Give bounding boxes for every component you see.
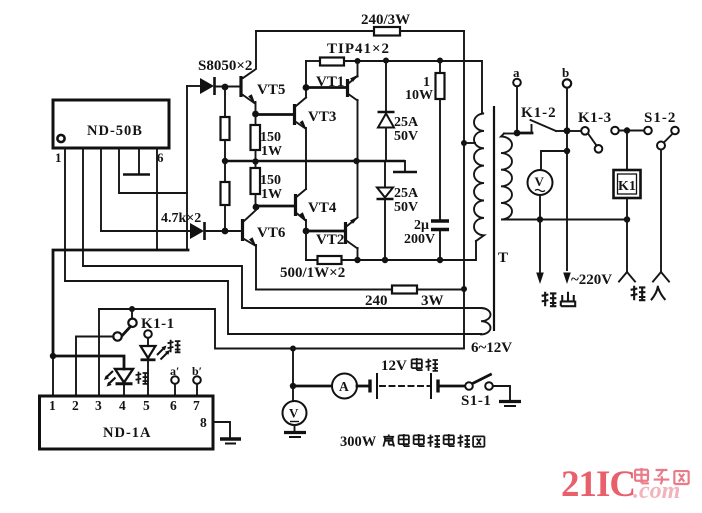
svg-text:VT1: VT1 — [316, 74, 344, 90]
wire left drop from D1 — [186, 86, 188, 250]
svg-text:ND-1A: ND-1A — [103, 425, 152, 441]
wire 150-1 to rail — [255, 150, 257, 168]
LED green — [147, 338, 149, 346]
LED red rays — [106, 371, 116, 385]
wire VT4/VT2 node down — [305, 231, 307, 260]
IC ND-50B box — [53, 100, 169, 148]
svg-text:5: 5 — [143, 398, 150, 413]
wire pin1 net to ND-1A pin1 — [52, 356, 54, 396]
resistor 150/1W no.1 — [251, 125, 261, 150]
resistor 240/3W — [374, 27, 400, 36]
label input (shu ru) — [631, 286, 646, 300]
wire diode D1 anode — [187, 85, 200, 87]
node VT2 base junction — [303, 228, 310, 235]
node pin1/pin4 junction — [50, 353, 56, 359]
wire to ammeter — [293, 385, 332, 388]
label output (shu chu) — [542, 292, 557, 306]
transistor VT2 — [344, 222, 347, 244]
secondary 220V winding — [501, 134, 512, 220]
svg-text:2μ: 2μ — [414, 218, 429, 233]
resistor 1/10W — [436, 73, 445, 99]
svg-text:2: 2 — [72, 398, 79, 413]
diode D1 — [200, 78, 214, 94]
resistor 4.7k no.2 — [221, 182, 230, 205]
wire D1 cathode to VT5 base — [215, 86, 240, 88]
transistor VT6 — [244, 207, 256, 221]
svg-text:1: 1 — [49, 398, 56, 413]
svg-text:a′: a′ — [170, 364, 179, 378]
node resistor 1/10W junction — [437, 58, 443, 64]
wire ND-50B pin1 down — [64, 148, 66, 281]
svg-text:VT6: VT6 — [257, 225, 286, 241]
wire bottom rail — [306, 241, 476, 260]
svg-text:4: 4 — [119, 398, 126, 413]
svg-text:150: 150 — [260, 130, 281, 145]
svg-text:.com: .com — [633, 478, 680, 504]
svg-text:b′: b′ — [192, 364, 202, 378]
node VT1 base junction — [303, 84, 310, 91]
transistor VT3 — [293, 104, 296, 125]
node D2/4.7k junction — [222, 228, 229, 235]
wire top rail left segment — [256, 30, 374, 32]
ammeter A — [332, 374, 357, 399]
input right arrow — [653, 272, 669, 282]
wire 4.7k2 to D2 node — [224, 205, 226, 231]
wire VT1 base — [306, 86, 346, 89]
svg-text:K1-2: K1-2 — [521, 105, 557, 121]
node VT1 emitter junction — [355, 58, 361, 64]
wire feedback A pin2 to winding top — [83, 266, 481, 308]
svg-text:VT5: VT5 — [257, 82, 285, 98]
svg-text:V: V — [289, 406, 299, 421]
svg-text:3: 3 — [95, 398, 102, 413]
wire battery+ vertical x=464 down to centre tap and bottom — [99, 31, 464, 349]
svg-text:6: 6 — [170, 398, 177, 413]
node VT1/VT2 rail junction — [353, 158, 359, 164]
wire to diode 25A-1 — [385, 61, 387, 112]
IC ND-1A box — [40, 396, 214, 449]
node centre-tap junction — [461, 140, 467, 146]
wire output right arrow — [563, 273, 571, 285]
svg-text:12V: 12V — [381, 358, 407, 374]
diode D2 — [190, 223, 204, 239]
resistor 240/3W lower — [392, 286, 417, 294]
svg-text:S1-2: S1-2 — [644, 110, 676, 126]
secondary output rail — [504, 219, 627, 221]
ground V lower — [284, 431, 306, 434]
svg-text:21IC: 21IC — [561, 464, 635, 505]
svg-text:50V: 50V — [394, 129, 418, 144]
pin 1 indicator ring — [57, 135, 64, 142]
node relay junction — [624, 127, 630, 133]
svg-text:K1-3: K1-3 — [578, 110, 612, 126]
node diode 25A-2 junction — [382, 257, 388, 263]
svg-text:V: V — [535, 174, 545, 189]
node a junction — [514, 130, 521, 137]
wire ND-50B pin4 down — [119, 148, 187, 193]
wire ammeter to battery — [357, 385, 370, 388]
ground pin 8 — [220, 437, 241, 440]
wire ND-50B pin6 down — [156, 148, 158, 250]
svg-text:500/1W×2: 500/1W×2 — [280, 265, 345, 281]
label green (lv) — [168, 340, 181, 353]
svg-text:S8050×2: S8050×2 — [198, 58, 252, 74]
node battery tap junction — [290, 346, 296, 352]
wire feedback B pin1 to winding bottom — [65, 281, 481, 334]
svg-text:a: a — [513, 65, 520, 80]
wire pin3 to diode D2 — [101, 230, 190, 232]
transistor VT4 — [294, 194, 297, 216]
svg-text:VT3: VT3 — [308, 109, 336, 125]
wire VT4 base — [256, 205, 294, 208]
svg-text:10W: 10W — [405, 88, 433, 103]
wire 4.7k1 to rail — [224, 140, 226, 161]
node diode 25A-1 junction — [383, 58, 389, 64]
wire b line down — [566, 88, 568, 270]
wire to 150 no.1 — [255, 114, 257, 125]
resistor 150/1W no.2 — [251, 168, 261, 194]
svg-text:240/3W: 240/3W — [361, 12, 410, 28]
node VT5 emitter junction — [252, 111, 259, 118]
transistor VT5 — [243, 31, 256, 78]
label red (hong) — [136, 372, 148, 384]
node VT6 collector junction — [253, 204, 260, 211]
wire a to winding top — [516, 87, 518, 134]
svg-text:1: 1 — [55, 150, 62, 165]
svg-text:~220V: ~220V — [571, 272, 612, 288]
wire rail left stub — [306, 60, 320, 62]
node output left junction — [537, 216, 543, 222]
svg-text:7: 7 — [193, 398, 200, 413]
battery 12V — [368, 380, 371, 393]
ground S1-1 — [499, 400, 521, 403]
terminal above green LED — [144, 330, 152, 338]
wire K1 to rail — [626, 198, 628, 220]
voltmeter V upper — [541, 151, 567, 170]
wire to 4.7k no.1 — [224, 87, 226, 117]
svg-text:25A: 25A — [394, 115, 419, 130]
wire resistor to capacitor — [439, 99, 441, 219]
svg-text:b: b — [562, 65, 569, 80]
wire resistor to battery net — [417, 289, 464, 291]
node VT2 collector junction — [354, 257, 360, 263]
svg-text:S1-1: S1-1 — [461, 393, 491, 409]
svg-text:150: 150 — [260, 173, 281, 188]
ground stub on bias rail — [404, 161, 406, 171]
wire to resistor 1/10W — [439, 61, 441, 74]
terminal a' — [171, 376, 179, 384]
wire ND-1A pin3 up — [98, 309, 100, 396]
switch S1-1 — [465, 382, 473, 390]
wire pin 8 to ground — [213, 422, 230, 438]
svg-text:50V: 50V — [394, 200, 418, 215]
svg-text:25A: 25A — [394, 186, 419, 201]
terminal b — [563, 79, 571, 87]
wire D2 cathode — [205, 230, 240, 232]
svg-text:8: 8 — [200, 415, 207, 430]
svg-text:T: T — [498, 250, 508, 266]
resistor 4.7k no.1 — [221, 117, 230, 140]
svg-text:3W: 3W — [421, 293, 444, 309]
primary winding — [474, 113, 484, 241]
node capacitor junction — [437, 257, 443, 263]
diode 25A/50V no.2 — [377, 188, 393, 198]
wire bias rail — [384, 161, 386, 186]
svg-text:A: A — [339, 379, 349, 394]
wire battery tap down — [292, 349, 294, 387]
node K1 coil rail junction — [624, 216, 630, 222]
node 150 rail junction — [252, 158, 258, 164]
wire V lower to ground — [294, 425, 296, 432]
ground ND-50B pin5 — [138, 148, 140, 173]
svg-text:240: 240 — [365, 293, 388, 309]
transformer core — [493, 106, 495, 331]
svg-text:1W: 1W — [261, 144, 282, 159]
svg-text:VT4: VT4 — [308, 200, 337, 216]
wire centre tap — [464, 142, 475, 144]
resistor TIP41 drive — [320, 58, 344, 66]
secondary 6-12V winding — [481, 308, 491, 334]
wire S1-2 to input — [660, 150, 662, 273]
svg-text:TIP41×2: TIP41×2 — [327, 41, 390, 57]
wire input left arrow — [626, 220, 628, 273]
wire thick supply to ND-1A pin1 — [53, 250, 188, 356]
terminal b' — [193, 376, 201, 384]
node D1/4.7k junction — [222, 84, 229, 91]
svg-text:K1-1: K1-1 — [141, 316, 175, 332]
voltmeter V lower — [292, 386, 294, 401]
svg-text:200V: 200V — [404, 232, 435, 247]
wire b node to K1-3 — [567, 130, 581, 132]
svg-text:ND-50B: ND-50B — [87, 123, 143, 139]
capacitor 2u/200V — [431, 219, 449, 223]
wire 150-2 to VT6 node — [255, 194, 257, 207]
svg-text:6~12V: 6~12V — [471, 340, 512, 356]
wire V meter to rail — [539, 195, 541, 220]
wire thick to red LED — [53, 356, 124, 369]
LED red — [115, 369, 133, 383]
svg-text:VT2: VT2 — [316, 232, 344, 248]
transistor VT1 — [346, 79, 349, 97]
wire rail to 4.7k no.2 — [224, 161, 226, 182]
node K1-2 contact junction — [564, 127, 571, 134]
wire ND-50B pin3 down — [100, 148, 102, 231]
node rail2 junction — [461, 286, 467, 292]
relay K1 — [626, 131, 628, 171]
node 4.7k rail junction — [222, 158, 228, 164]
diode 25A/50V no.1 — [378, 111, 395, 114]
svg-text:300W: 300W — [340, 434, 377, 450]
node meter junction — [290, 383, 296, 389]
svg-text:1W: 1W — [261, 187, 282, 202]
wire capacitor to rail — [439, 231, 441, 260]
terminal a — [513, 79, 521, 87]
svg-text:K1: K1 — [618, 179, 636, 194]
wire VT2 base — [306, 230, 344, 233]
node K1-1 tap junction — [129, 306, 135, 312]
wire top rail right segment — [400, 30, 464, 32]
resistor 500/1W — [318, 256, 342, 264]
wire S1-1 to ground — [493, 386, 510, 400]
LED green rays — [157, 347, 169, 360]
wire battery to S1-1 — [440, 385, 465, 388]
wire ND-50B pin2 down — [82, 148, 84, 266]
wire K1-1 to ND-1A pin2 — [76, 337, 114, 397]
wire output left arrow — [539, 220, 541, 274]
wire VT3 base — [256, 113, 294, 116]
wire rail y=61 — [344, 61, 482, 113]
svg-text:4.7k×2: 4.7k×2 — [161, 211, 201, 226]
wire VT6 emitter rail — [256, 289, 392, 291]
svg-text:6: 6 — [157, 150, 164, 165]
